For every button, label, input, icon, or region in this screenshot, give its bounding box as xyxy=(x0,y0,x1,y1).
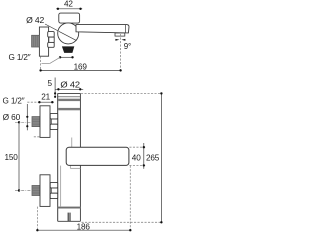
aerator under spout tip xyxy=(115,33,125,36)
dimension 21 line xyxy=(38,101,54,103)
9 degree dashed reference xyxy=(120,34,122,70)
ring band 1 xyxy=(58,99,80,101)
cap ring line xyxy=(58,96,81,98)
centerline top inlet xyxy=(15,121,31,123)
svg-text:169: 169 xyxy=(74,63,88,72)
dimension 265 extension bottom xyxy=(82,221,162,223)
dimension 265 extension top xyxy=(81,92,161,94)
dimension 186 line xyxy=(37,229,130,231)
flange bottom reference dash xyxy=(34,136,40,138)
svg-text:21: 21 xyxy=(41,93,50,102)
9 degree arrows xyxy=(115,39,119,41)
svg-text:150: 150 xyxy=(5,153,19,162)
top inlet: hex nut xyxy=(50,113,58,129)
round body Ø42 circle xyxy=(58,23,79,44)
svg-text:Ø 42: Ø 42 xyxy=(60,80,80,89)
dimension 265 line xyxy=(160,93,162,222)
threaded nipple (side) xyxy=(32,35,40,47)
inner line below spout xyxy=(60,166,62,207)
dimension Ø42 line (front) xyxy=(55,88,83,90)
dimension 169 extension line under flange xyxy=(40,56,42,70)
dimension 5 arrows xyxy=(54,92,56,94)
wall flange (side) xyxy=(39,27,48,56)
leader continuation across circle xyxy=(59,31,77,40)
svg-text:265: 265 xyxy=(146,154,160,163)
leader line from Ø42 into circle xyxy=(45,24,77,41)
bottom inlet: wall flange xyxy=(40,175,50,207)
dimension 40 line xyxy=(143,143,145,169)
svg-text:186: 186 xyxy=(77,222,91,231)
top inlet: threaded nipple xyxy=(32,117,40,127)
body cap (top view) xyxy=(59,13,80,23)
body tube outline (front) xyxy=(58,93,81,221)
ring band 2 xyxy=(58,108,80,110)
centerline bottom inlet xyxy=(15,190,31,192)
svg-text:G 1/2″: G 1/2″ xyxy=(3,97,25,106)
step below spout xyxy=(70,167,80,169)
svg-text:Ø 42: Ø 42 xyxy=(26,16,45,25)
dimension 150 line xyxy=(18,122,20,190)
nipple thread dimension line xyxy=(26,104,28,130)
dimension 169 line xyxy=(41,69,121,71)
union hex nut (side) xyxy=(48,32,55,48)
bottom inlet: threaded nipple xyxy=(32,186,40,196)
extension line between 5 and Ø42 xyxy=(54,78,56,98)
bottom tab xyxy=(67,213,69,221)
svg-text:5: 5 xyxy=(48,79,53,88)
dimension 186 extension from flange xyxy=(36,207,38,231)
svg-text:G 1/2″: G 1/2″ xyxy=(9,53,31,62)
inner line above spout xyxy=(71,138,73,148)
svg-text:Ø 60: Ø 60 xyxy=(3,113,21,122)
spout bar (front) xyxy=(66,147,129,165)
dimension 186 extension from spout tip xyxy=(129,166,131,231)
dimension 42 line xyxy=(56,8,82,10)
dark band near bottom xyxy=(58,207,81,209)
top inlet: wall flange xyxy=(40,106,50,138)
svg-text:40: 40 xyxy=(132,153,141,162)
outlet thread dimension xyxy=(60,56,72,58)
svg-text:42: 42 xyxy=(64,0,73,8)
spout end inner line xyxy=(124,25,126,33)
bottom inlet: hex nut xyxy=(50,182,58,198)
shower outlet (dark) under body xyxy=(62,46,74,53)
svg-text:9°: 9° xyxy=(124,42,131,51)
dimension 40 extension dashes xyxy=(129,146,145,148)
spout (side) xyxy=(76,25,129,33)
